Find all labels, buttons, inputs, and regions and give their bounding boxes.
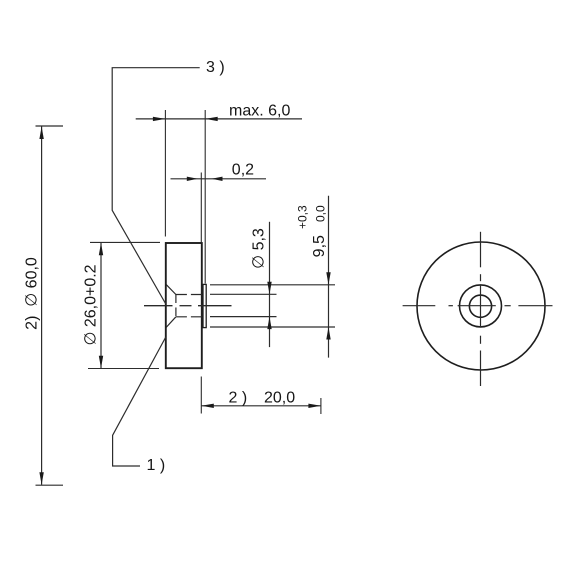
dimension D60: dimension line bbox=[41, 127, 43, 485]
hole projection line inner-top bbox=[210, 293, 277, 295]
dimension 9,5: arrowhead down bbox=[326, 272, 330, 285]
front view: hole circle bbox=[469, 295, 491, 317]
dimension D5,3: dimension line bbox=[269, 222, 271, 347]
dimension 0,2: arrowhead right-pointing bbox=[187, 177, 198, 181]
dimension 20,0: extension line right bbox=[320, 398, 322, 414]
svg-text:0,0: 0,0 bbox=[314, 205, 328, 222]
svg-text:2) ∅ 60,0: 2) ∅ 60,0 bbox=[24, 257, 41, 330]
dimension D60: extension line bottom bbox=[36, 484, 64, 486]
dimension max 6,0: arrowhead right-pointing bbox=[153, 117, 166, 121]
dimension D26: extension line top bbox=[90, 241, 160, 243]
hole projection line inner-bottom bbox=[210, 316, 277, 318]
svg-text:3 ): 3 ) bbox=[206, 59, 225, 76]
hole projection line outer-top bbox=[210, 284, 335, 286]
dimension 20,0: dimension line bbox=[201, 405, 321, 407]
svg-text:max. 6,0: max. 6,0 bbox=[229, 103, 290, 120]
hidden hole bottom (vertical) bbox=[175, 295, 177, 317]
callout 1): leader polyline bbox=[113, 337, 166, 466]
center line (side view, dash-dot) bbox=[144, 305, 173, 307]
svg-text:2 ): 2 ) bbox=[229, 389, 248, 406]
hidden countersink lower diagonal bbox=[166, 317, 176, 328]
dimension D26: dimension line bbox=[100, 243, 102, 368]
svg-text:9,5: 9,5 bbox=[311, 235, 328, 257]
svg-text:0,2: 0,2 bbox=[232, 162, 254, 179]
hidden countersink upper diagonal bbox=[166, 285, 176, 295]
dimension D60: arrowhead up bbox=[39, 127, 43, 140]
dimension D5,3: arrowhead up bbox=[267, 317, 271, 330]
dimension D60: extension line top bbox=[36, 125, 64, 127]
dimension D26: arrowhead down bbox=[99, 356, 103, 369]
dimension max 6,0: dimension line bbox=[136, 118, 302, 120]
front view: vertical center line (dash-dot) bbox=[480, 232, 482, 386]
front view: outer circle bbox=[417, 242, 545, 370]
dimension 20,0: arrowhead left-pointing bbox=[201, 404, 214, 408]
callout 3): leader polyline bbox=[112, 68, 200, 304]
dimension 9,5: arrowhead up bbox=[326, 327, 330, 340]
extension line left face (max 6,0 left) bbox=[164, 110, 166, 237]
svg-text:1 ): 1 ) bbox=[147, 457, 166, 474]
svg-text:20,0: 20,0 bbox=[264, 389, 295, 406]
svg-text:∅ 26,0+0.2: ∅ 26,0+0.2 bbox=[83, 264, 100, 345]
dimension D26: extension line bottom bbox=[88, 368, 159, 370]
main body rectangle (section of hub, side view) bbox=[166, 243, 202, 368]
dimension D60: arrowhead down bbox=[39, 472, 43, 485]
dimension max 6,0: arrowhead left-pointing bbox=[205, 117, 218, 121]
dimension 0,2: arrowhead left-pointing bbox=[212, 177, 223, 181]
svg-text:∅ 5,3: ∅ 5,3 bbox=[251, 228, 268, 269]
extension line strip face (max6,0 right / 0,2 right) bbox=[204, 110, 206, 284]
svg-text:+0,3: +0,3 bbox=[295, 205, 309, 229]
hidden hole lower line bbox=[176, 316, 202, 318]
thin elastic strip on right face bbox=[203, 284, 206, 327]
dimension D5,3: arrowhead down bbox=[267, 282, 271, 295]
dimension 20,0: extension line left bbox=[200, 377, 202, 414]
dimension 0,2: dimension line bbox=[171, 178, 267, 180]
front view: horizontal center line (dash-dot) bbox=[403, 305, 553, 307]
extension line right of rect face (0,2 left) bbox=[200, 173, 202, 243]
dimension 9,5: dimension line bbox=[328, 196, 330, 358]
front view: counterbore circle bbox=[460, 285, 502, 327]
dimension D26: arrowhead up bbox=[99, 243, 103, 256]
hole projection line outer-bottom bbox=[210, 326, 335, 328]
hidden hole upper line bbox=[176, 294, 202, 296]
dimension 20,0: arrowhead right-pointing bbox=[308, 404, 321, 408]
